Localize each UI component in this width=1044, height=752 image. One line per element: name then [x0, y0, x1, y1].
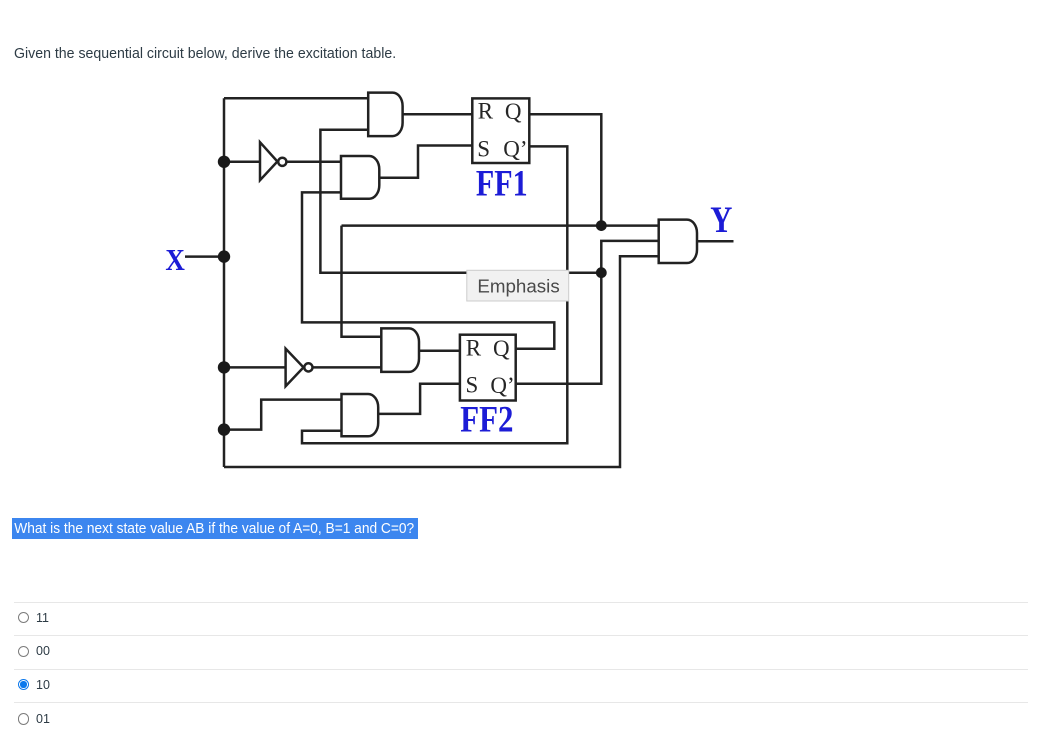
radio option 10 selected [18, 679, 30, 691]
wire FF1 Q to node at Y gate [529, 114, 601, 225]
and-gate A2 (FF1 S) [341, 156, 379, 199]
junction dot inverter1 tap [218, 156, 230, 168]
wire AND2 output to FF1 S [380, 146, 473, 178]
wire branch down to FF2 R-AND top input [342, 226, 382, 337]
wire FF2 Q feedback to AND2 bottom input [302, 192, 554, 348]
wire inverter2 output to FF2 R-AND [312, 366, 382, 369]
junction dot X input [218, 250, 230, 262]
inverter N1 bubble [278, 158, 286, 166]
wire AND1 output to FF1 R [403, 113, 473, 116]
svg-text:X: X [165, 242, 185, 277]
wire X input stub [185, 255, 224, 258]
answer separator 4 [14, 702, 1028, 703]
inverter N1 triangle [260, 142, 277, 180]
wire bottom bus to Y gate input 3 [224, 256, 659, 467]
radio option 11 [18, 612, 30, 624]
answer separator 2 [14, 635, 1028, 636]
wire long feedback FF1 Q to Y gate input 1 [342, 224, 659, 227]
svg-text:Emphasis: Emphasis [477, 277, 559, 297]
and-gate A3 (FF2 R) [381, 328, 419, 372]
wire inverter1 input [224, 161, 259, 164]
answer separator 1 [14, 602, 1028, 603]
flip-flop FF1 box [472, 98, 529, 163]
wire FF1 Q' down to FF2 S-AND bottom input [302, 146, 567, 443]
and-gate Y output [659, 220, 697, 263]
svg-text:S: S [477, 136, 490, 161]
highlighted question text [12, 518, 418, 540]
svg-text:Q’: Q’ [503, 136, 527, 161]
wire FF2 S-AND output to FF2 S [378, 384, 460, 414]
wire bus to FF2 S-AND top input [224, 400, 342, 430]
wire top bus to AND1 [224, 97, 368, 100]
svg-text:R: R [466, 336, 482, 361]
wire left input bus [223, 98, 226, 467]
junction dot on FF2 Q' net [596, 267, 607, 278]
radio option 01 [18, 713, 30, 725]
svg-text:FF2: FF2 [460, 399, 513, 440]
svg-text:Q: Q [493, 336, 510, 361]
svg-text:Q’: Q’ [490, 373, 514, 398]
wire FF2 R-AND output to FF2 R [419, 350, 460, 353]
and-gate A1 (FF1 R) [368, 93, 402, 136]
and-gate A4 (FF2 S) [342, 394, 379, 436]
wire inverter2 input [224, 366, 285, 369]
wire FF2 Q' up to Y gate input 2 [516, 241, 659, 384]
question title [14, 45, 396, 62]
junction dot on FF1 Q net [596, 220, 607, 231]
radio option 00 [18, 646, 30, 658]
junction dot FF2 S-AND tap [218, 423, 230, 435]
flip-flop FF2 box [460, 335, 516, 401]
wire Y gate output [697, 240, 734, 243]
wire emphasis branch to AND1 bottom input [320, 130, 601, 273]
emphasis tooltip box [467, 270, 569, 301]
answer separator 3 [14, 669, 1028, 670]
svg-text:R: R [478, 98, 494, 123]
inverter N2 bubble [304, 363, 312, 371]
svg-text:S: S [466, 372, 479, 397]
svg-text:Y: Y [710, 200, 732, 241]
wire inverter1 output to AND2 [286, 161, 341, 164]
junction dot inverter2 tap [218, 361, 230, 373]
svg-text:FF1: FF1 [476, 163, 528, 204]
inverter N2 triangle [286, 349, 304, 387]
svg-text:Q: Q [505, 99, 522, 124]
